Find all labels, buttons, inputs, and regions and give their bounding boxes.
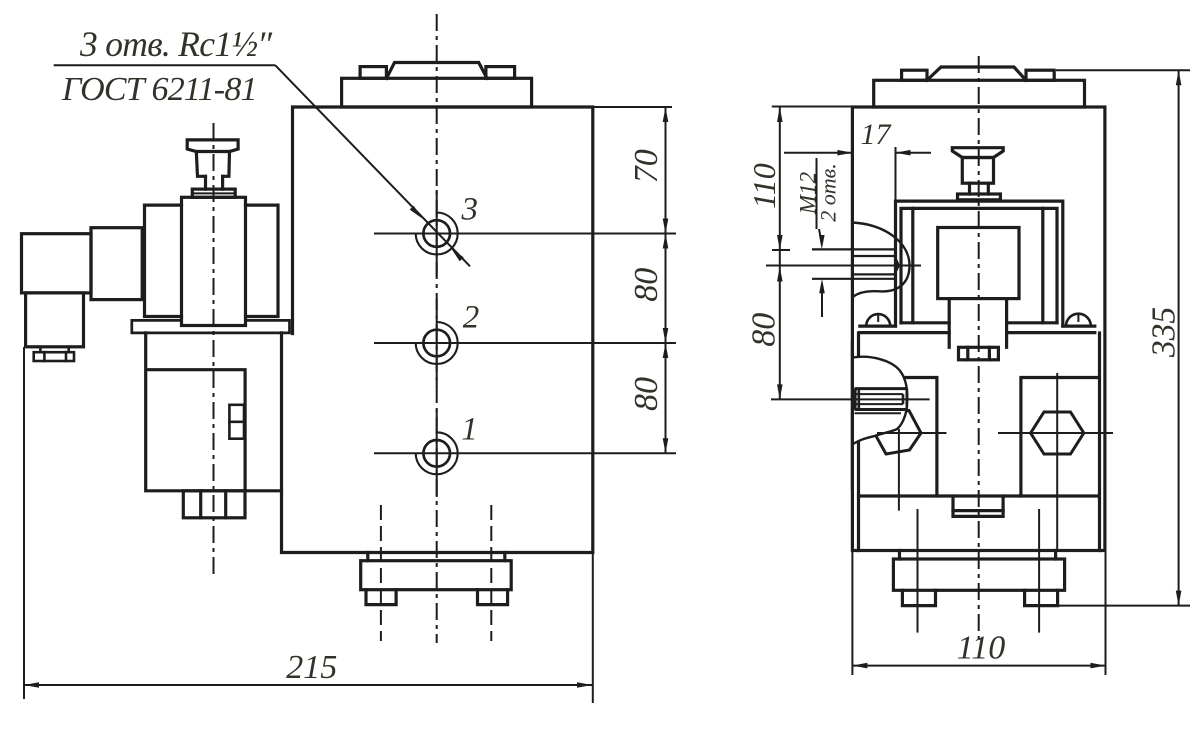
svg-text:70: 70 <box>628 149 665 183</box>
svg-text:2: 2 <box>463 300 480 336</box>
svg-text:3 отв. Rc1½″: 3 отв. Rc1½″ <box>79 24 273 64</box>
svg-text:335: 335 <box>1146 307 1183 358</box>
svg-text:80: 80 <box>628 377 665 411</box>
svg-text:215: 215 <box>286 649 337 686</box>
svg-text:110: 110 <box>746 163 782 209</box>
svg-text:1: 1 <box>461 412 478 448</box>
svg-text:ГОСТ 6211-81: ГОСТ 6211-81 <box>61 71 257 108</box>
svg-text:2 отв.: 2 отв. <box>816 163 841 221</box>
svg-text:3: 3 <box>461 192 479 228</box>
svg-text:110: 110 <box>957 630 1005 667</box>
svg-text:80: 80 <box>746 313 783 347</box>
svg-text:80: 80 <box>628 268 665 302</box>
svg-text:17: 17 <box>861 118 893 151</box>
